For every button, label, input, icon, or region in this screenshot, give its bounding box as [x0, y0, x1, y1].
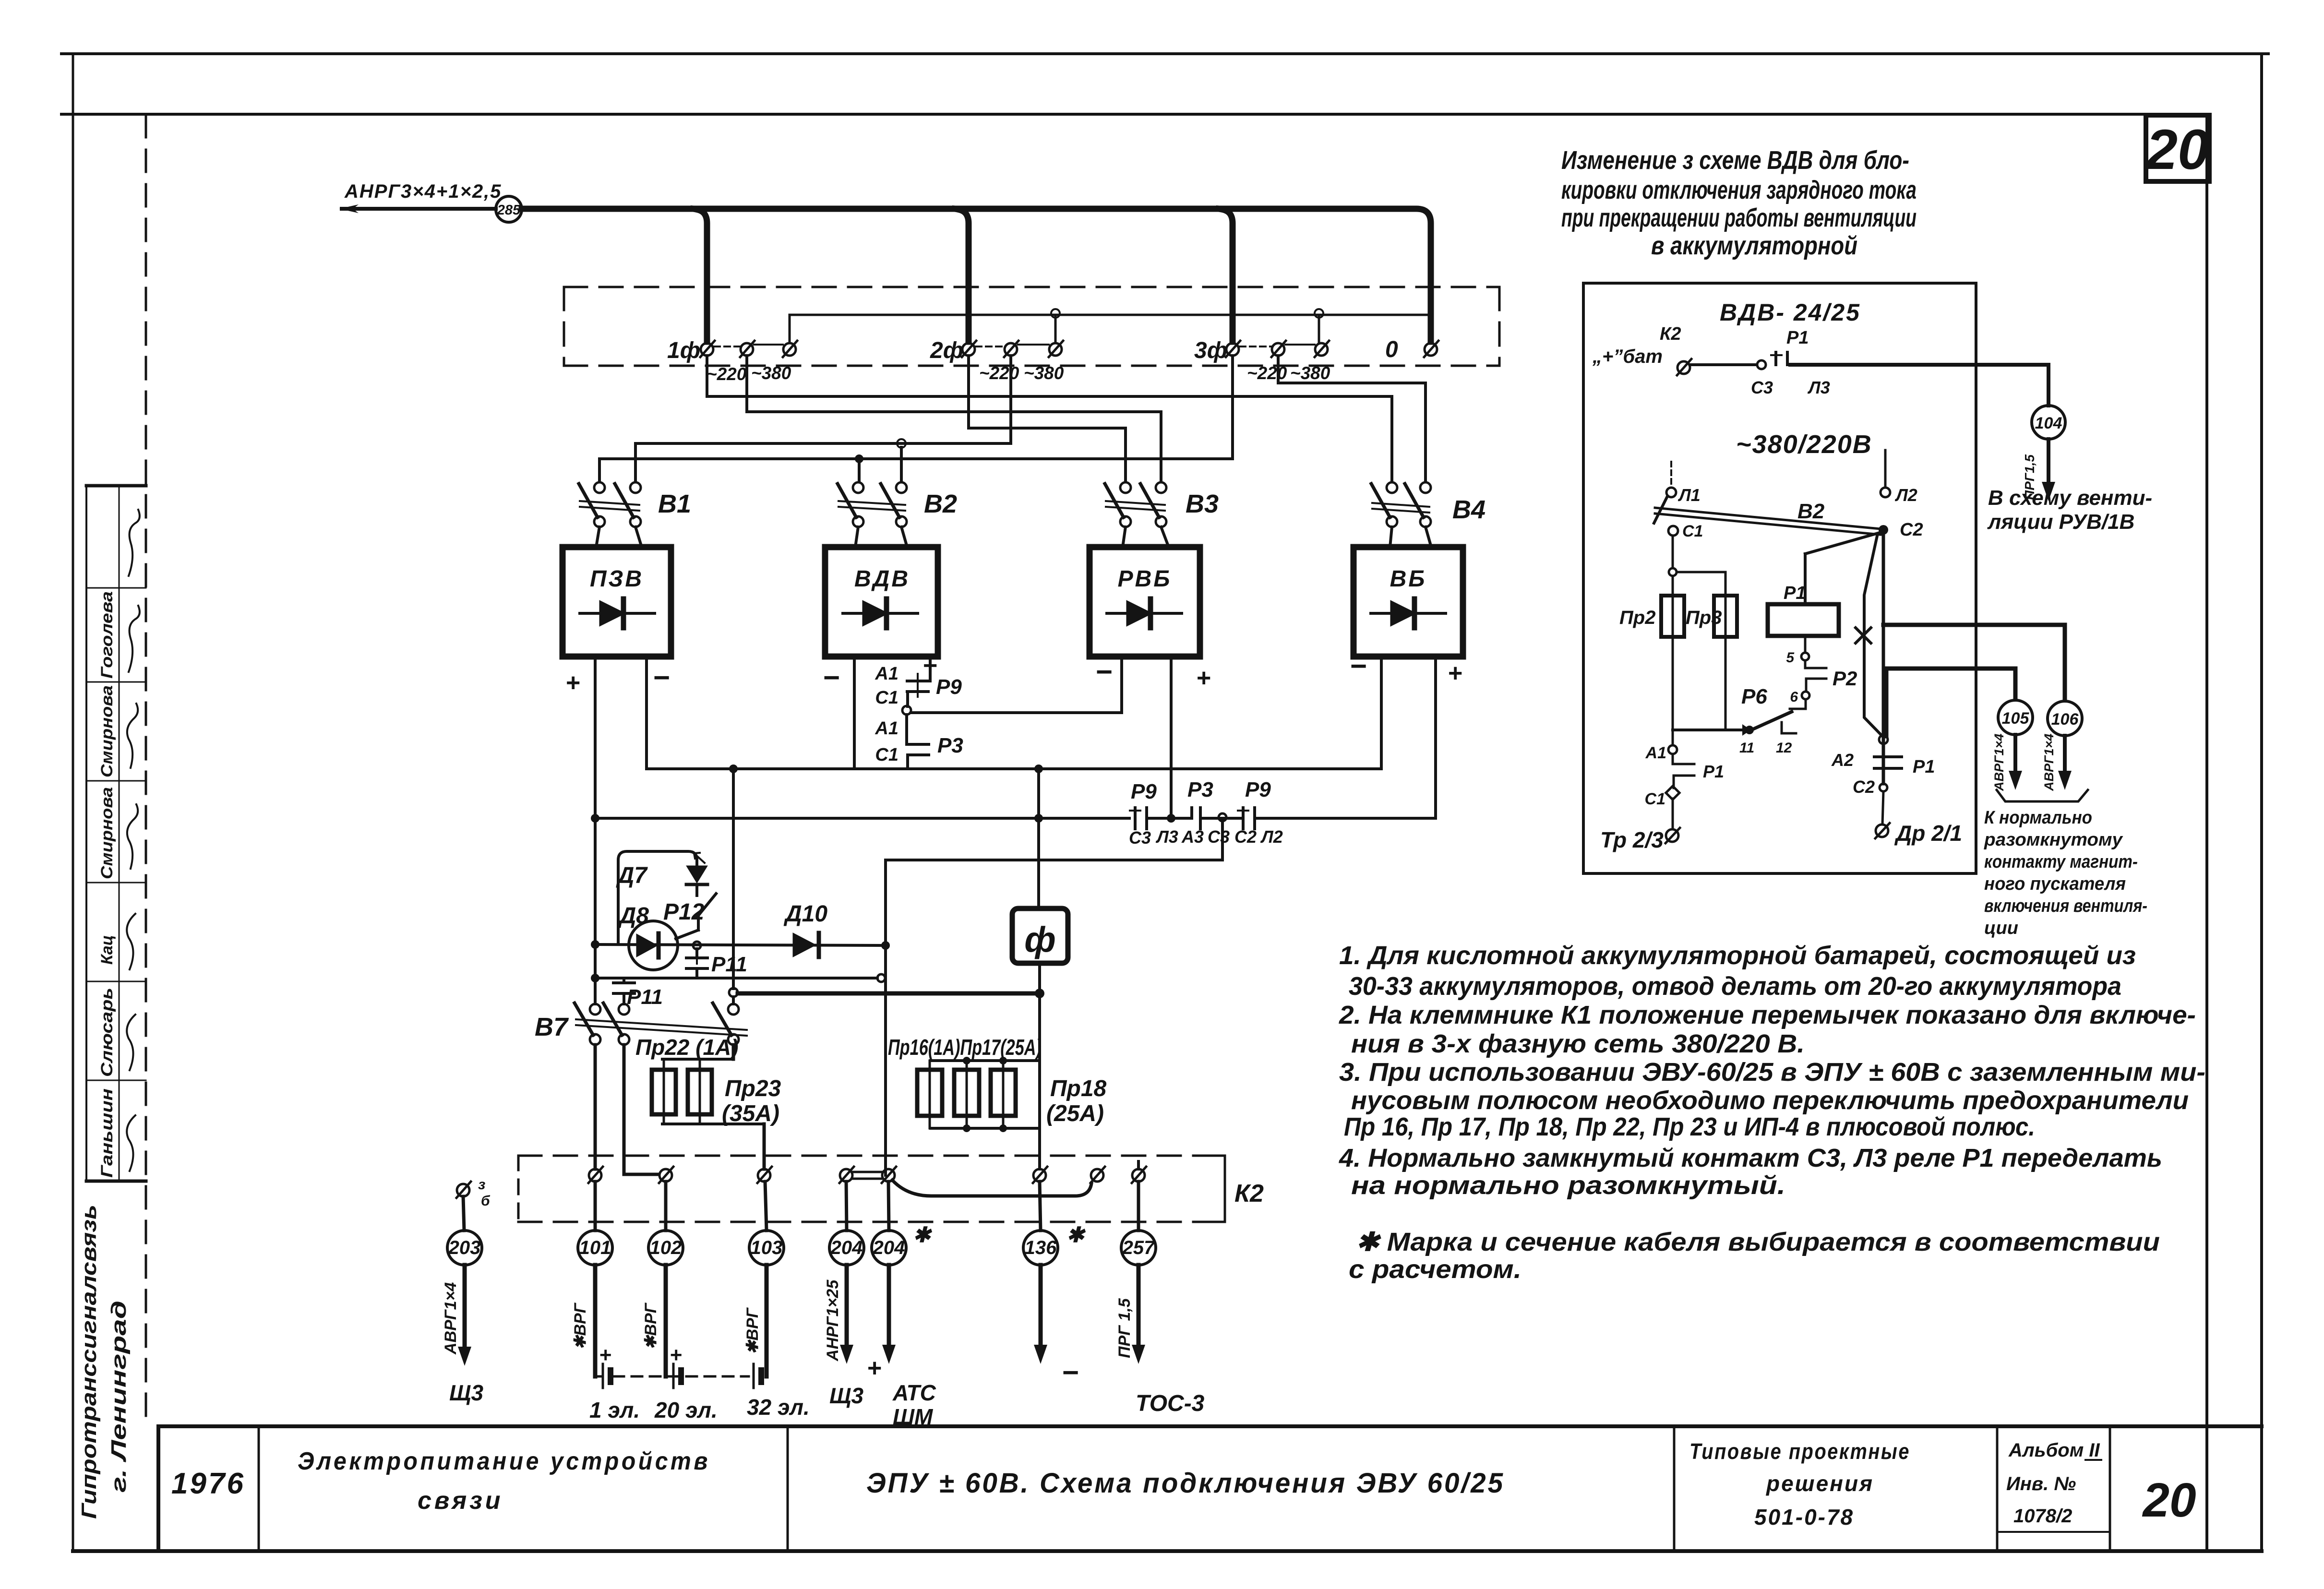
- wire 3f main to B1 left: [599, 356, 1233, 482]
- svg-text:−: −: [1095, 656, 1112, 688]
- svg-text:С1: С1: [875, 745, 898, 765]
- neutral jumper wire in K1: [790, 315, 1431, 343]
- svg-text:Гипротранссигналсвязь: Гипротранссигналсвязь: [77, 1205, 101, 1519]
- svg-text:Гоголева: Гоголева: [98, 591, 116, 679]
- svg-text:+: +: [1448, 659, 1462, 687]
- svg-text:Щ3: Щ3: [829, 1383, 863, 1408]
- svg-text:+: +: [670, 1343, 682, 1367]
- svg-text:ного пускателя: ного пускателя: [1984, 874, 2126, 894]
- svg-text:А3: А3: [1181, 827, 1204, 847]
- svg-text:ВДВ- 24/25: ВДВ- 24/25: [1720, 299, 1861, 326]
- svg-text:Д7: Д7: [616, 863, 648, 888]
- switch В7 (3-pole): [575, 1003, 747, 1045]
- svg-text:Слюсарь: Слюсарь: [98, 988, 116, 1077]
- svg-text:С2: С2: [1234, 827, 1257, 847]
- fuse group Пр23: [652, 1059, 764, 1169]
- tap labels: [707, 363, 1330, 384]
- svg-text:+: +: [599, 1343, 611, 1367]
- Р11 contact B: [613, 978, 635, 1004]
- svg-text:Д10: Д10: [783, 901, 827, 927]
- svg-text:Пр2: Пр2: [1619, 607, 1655, 628]
- svg-text:ВДВ: ВДВ: [854, 566, 910, 592]
- svg-text:Пр23: Пр23: [725, 1076, 781, 1101]
- contact Р2 chain: [1790, 653, 1826, 709]
- svg-text:Р1: Р1: [1703, 762, 1724, 781]
- svg-text:С3: С3: [1751, 378, 1773, 397]
- K1 terminals (slashed circles): [700, 341, 1438, 357]
- svg-text:1ф: 1ф: [667, 338, 700, 363]
- Д7 loop: [618, 851, 697, 944]
- lower wire to V1845: [595, 977, 877, 980]
- svg-text:АВРГ1×4: АВРГ1×4: [2042, 734, 2056, 791]
- svg-text:ЭПУ ± 60В. Схема подключени: ЭПУ ± 60В. Схема подключения ЭВУ 60/25: [866, 1468, 1505, 1499]
- signature squiggles: [127, 510, 140, 1171]
- Д8 thyristor in circle: [629, 921, 678, 970]
- svg-text:Пр22 (1А): Пр22 (1А): [635, 1035, 739, 1060]
- svg-text:1. Для кислотной аккумуляторн: 1. Для кислотной аккумуляторной батарей,…: [1339, 941, 2136, 970]
- svg-text:К2: К2: [1234, 1180, 1264, 1207]
- jumper node circles: [1051, 309, 1060, 318]
- node 285: [496, 196, 522, 222]
- svg-text:1976: 1976: [171, 1467, 245, 1500]
- svg-text:ПРГ 1,5: ПРГ 1,5: [1115, 1298, 1134, 1358]
- svg-text:✱: ✱: [913, 1223, 933, 1247]
- bracket under arrows: [1997, 790, 2088, 801]
- svg-text:−: −: [1062, 1356, 1078, 1388]
- svg-text:А1: А1: [874, 718, 898, 739]
- svg-text:б: б: [481, 1193, 491, 1209]
- svg-text:АВРГ1×4: АВРГ1×4: [1992, 734, 2006, 791]
- svg-text:АТС: АТС: [892, 1380, 936, 1405]
- svg-text:30-33 аккумуляторов, отвод дел: 30-33 аккумуляторов, отвод делать от 20-…: [1349, 972, 2121, 1001]
- sheet border bottom: [73, 1549, 2262, 1553]
- wire 2f-220 to B1 right: [635, 356, 1011, 482]
- main vertical С2 column: [1875, 535, 1890, 838]
- switch B2: [838, 482, 907, 547]
- rectifier ВДВ: [825, 547, 938, 657]
- svg-text:ф: ф: [1024, 920, 1055, 959]
- svg-text:Инв. №: Инв. №: [2006, 1473, 2076, 1494]
- cable 203 to Щ3: [463, 1265, 467, 1350]
- left column С1/Пр2/Пр3: [1661, 526, 1751, 730]
- svg-text:ТОС-3: ТОС-3: [1136, 1391, 1205, 1416]
- svg-text:разомкнутому: разомкнутому: [1984, 830, 2123, 850]
- svg-text:Л3: Л3: [1807, 378, 1830, 397]
- svg-text:136: 136: [1025, 1237, 1057, 1258]
- svg-text:Л2: Л2: [1260, 827, 1283, 847]
- battery cable 101: [593, 1265, 598, 1376]
- svg-text:контакту магнит-: контакту магнит-: [1984, 852, 2138, 872]
- battery cable 103: [765, 1265, 769, 1376]
- svg-text:С2: С2: [1853, 777, 1875, 797]
- sheet number box top-right: [2146, 115, 2209, 181]
- svg-text:2. На клеммнике К1 положение п: 2. На клеммнике К1 положение перемычек п…: [1339, 1001, 2196, 1029]
- wire from V1845 to plus bus: [886, 821, 1222, 1175]
- title block frame: [158, 1426, 2262, 1551]
- svg-text:Пр 16, Пр 17, Пр 18, Пр 22,: Пр 16, Пр 17, Пр 18, Пр 22, Пр 23 и ИП-4…: [1344, 1112, 2035, 1141]
- svg-text:Р6: Р6: [1741, 685, 1767, 708]
- svg-text:~220: ~220: [979, 363, 1019, 383]
- incoming feeder wire: [339, 196, 522, 222]
- sheet inner border top: [61, 113, 2208, 116]
- Д7 LED: [686, 853, 707, 896]
- stub B2 left: [858, 459, 861, 482]
- plus bus with contacts Р9 Р3 Р9: [594, 657, 1436, 1004]
- svg-text:6: 6: [1790, 689, 1798, 705]
- ВДВ+ contact stack Р9/Р3: [907, 657, 1122, 769]
- wire 1f main to B4 left: [707, 356, 1392, 482]
- rectifier РВБ: [1090, 547, 1200, 657]
- svg-text:203: 203: [448, 1237, 481, 1258]
- svg-text:4. Нормально замкнутый конта: 4. Нормально замкнутый контакт С3, Л3 ре…: [1339, 1144, 2162, 1172]
- signature table: [86, 486, 146, 1181]
- switch B1: [579, 482, 642, 547]
- cable 136 minus: [1039, 1265, 1043, 1348]
- node С2: [1879, 525, 1888, 535]
- svg-text:Пр16(1А)Пр17(25А): Пр16(1А)Пр17(25А): [888, 1035, 1042, 1060]
- sheet outer border left: [72, 54, 74, 1551]
- svg-text:+: +: [867, 1354, 881, 1382]
- svg-text:+: +: [565, 669, 580, 697]
- svg-text:С3: С3: [1129, 828, 1151, 848]
- svg-text:при прекращении работы вентиля: при прекращении работы вентиляции: [1561, 203, 1917, 232]
- svg-text:включения вентиля-: включения вентиля-: [1984, 896, 2147, 916]
- svg-text:Р1: Р1: [1784, 583, 1806, 603]
- svg-text:257: 257: [1122, 1237, 1155, 1258]
- wire 3f-220 to B4 right: [1278, 356, 1426, 482]
- right column X branch: [1864, 534, 1882, 736]
- svg-text:К2: К2: [1660, 324, 1681, 344]
- terminal block К2 dashed box: [518, 1156, 1225, 1222]
- battery cable 102: [664, 1265, 668, 1376]
- jumper 204-204*: [853, 1171, 882, 1173]
- svg-text:С2: С2: [1900, 520, 1923, 540]
- junction dots on minus bus: [729, 765, 738, 773]
- node on stack: [902, 706, 911, 715]
- svg-text:Л2: Л2: [1894, 485, 1917, 505]
- svg-text:Др 2/1: Др 2/1: [1894, 821, 1962, 846]
- svg-text:А1: А1: [1645, 744, 1666, 762]
- svg-text:К нормально: К нормально: [1984, 808, 2092, 828]
- svg-text:ции: ции: [1984, 918, 2018, 938]
- svg-text:~380: ~380: [1290, 363, 1330, 383]
- svg-text:С1: С1: [1682, 522, 1703, 540]
- svg-text:РВБ: РВБ: [1118, 566, 1172, 592]
- svg-text:Смирнова: Смирнова: [98, 685, 116, 777]
- svg-text:Л3: Л3: [1155, 827, 1178, 847]
- svg-text:з: з: [478, 1177, 485, 1193]
- main feeder bus: [522, 209, 1431, 342]
- svg-text:АНРГ3×4+1×2,5: АНРГ3×4+1×2,5: [344, 181, 502, 202]
- wire through Д8 and Д10: [595, 944, 886, 945]
- svg-text:105: 105: [2002, 709, 2030, 728]
- node circle on wire at B2 right: [897, 439, 906, 448]
- svg-text:ния в 3-х фазную сеть 380: ния в 3-х фазную сеть 380/220 В.: [1351, 1029, 1805, 1058]
- wires В7 to К2: [595, 1045, 733, 1174]
- svg-text:в аккумуляторной: в аккумуляторной: [1651, 231, 1857, 260]
- svg-text:нусовым полюсом необходимо: нусовым полюсом необходимо переключить п…: [1351, 1086, 2189, 1115]
- stub B2 right: [900, 447, 903, 482]
- K1 jumper links: [714, 345, 1315, 346]
- svg-text:✱ВРГ: ✱ВРГ: [743, 1307, 762, 1354]
- svg-text:Р11: Р11: [711, 953, 747, 976]
- minus bus ПЗВ−/ВДВ−/ВБ−: [647, 657, 1381, 769]
- svg-text:~380: ~380: [751, 363, 791, 383]
- signature table names (rotated): [98, 591, 116, 1178]
- numbered circles row: [447, 1231, 1156, 1265]
- svg-text:Р11: Р11: [627, 985, 663, 1009]
- svg-text:204: 204: [873, 1237, 905, 1258]
- wires to circles 105/106: [1883, 625, 2065, 736]
- svg-text:~220: ~220: [707, 364, 747, 384]
- svg-text:АВРГ1×4: АВРГ1×4: [442, 1282, 460, 1355]
- svg-text:В7: В7: [535, 1013, 569, 1041]
- relay coil Р1: [1768, 533, 1880, 653]
- sheet outer border top: [61, 52, 2268, 55]
- cable 257 to ТОС-3: [1137, 1265, 1141, 1348]
- svg-text:связи: связи: [418, 1487, 503, 1515]
- svg-text:Р3: Р3: [937, 734, 963, 757]
- svg-text:(35А): (35А): [722, 1101, 779, 1126]
- svg-text:✱ВРГ: ✱ВРГ: [642, 1302, 660, 1350]
- svg-text:✱: ✱: [1066, 1223, 1086, 1247]
- svg-text:Д8: Д8: [618, 903, 649, 929]
- drawing area left dashed border: [145, 115, 147, 1426]
- svg-text:С1: С1: [1645, 790, 1665, 808]
- svg-text:Р1: Р1: [1786, 328, 1809, 348]
- svg-text:В схему венти-: В схему венти-: [1988, 486, 2152, 510]
- svg-text:(25А): (25А): [1046, 1101, 1104, 1126]
- svg-text:5: 5: [1786, 650, 1795, 666]
- svg-text:102: 102: [650, 1237, 682, 1258]
- svg-text:−: −: [653, 661, 670, 693]
- svg-text:Р9: Р9: [1245, 778, 1271, 801]
- svg-text:с расчетом.: с расчетом.: [1349, 1255, 1521, 1284]
- svg-text:3. При использовании ЭВУ-60/2: 3. При использовании ЭВУ-60/25 в ЭПУ ± 6…: [1339, 1058, 2205, 1087]
- feeder drop 3f: [1219, 209, 1233, 342]
- svg-text:+: +: [1196, 664, 1210, 692]
- svg-text:Р2: Р2: [1833, 667, 1857, 690]
- svg-text:В4: В4: [1452, 495, 1485, 524]
- sheet outer border right: [2260, 54, 2263, 1551]
- svg-text:Р9: Р9: [1131, 780, 1157, 803]
- svg-text:204: 204: [830, 1237, 863, 1258]
- svg-text:С3: С3: [1208, 827, 1230, 847]
- svg-text:Кац: Кац: [98, 935, 116, 965]
- svg-text:✱ Марка и сечение кабеля в: ✱ Марка и сечение кабеля выбирается в со…: [1356, 1228, 2160, 1256]
- svg-text:1 эл.: 1 эл.: [589, 1398, 640, 1422]
- svg-text:В2: В2: [924, 490, 957, 518]
- fuse group Пр18: [917, 993, 1040, 1169]
- wire 1f-220 to B3 right: [747, 356, 1161, 482]
- blade Р6: [1748, 712, 1792, 731]
- svg-text:1078/2: 1078/2: [2013, 1505, 2072, 1527]
- К2 terminals: [588, 1167, 1146, 1183]
- svg-text:−: −: [1350, 650, 1366, 682]
- svg-text:В2: В2: [1797, 500, 1825, 523]
- svg-text:В1: В1: [658, 490, 691, 518]
- svg-text:Электропитание устройств: Электропитание устройств: [298, 1447, 710, 1475]
- svg-text:32 эл.: 32 эл.: [747, 1395, 810, 1420]
- vertical from minus bus to В7 pole3: [732, 769, 735, 1004]
- svg-text:Щ3: Щ3: [449, 1380, 483, 1405]
- switch B3: [1105, 482, 1169, 547]
- cable 204* to АТС ШМ: [887, 1265, 891, 1348]
- svg-text:ляции РУВ/1В: ляции РУВ/1В: [1987, 510, 2134, 534]
- svg-text:г. Ленинград: г. Ленинград: [107, 1301, 131, 1493]
- annotation к нормально...: [1984, 808, 2147, 938]
- svg-text:Смирнова: Смирнова: [98, 787, 116, 879]
- rectifier ПЗВ: [563, 547, 671, 657]
- stub above terminal 257: [1137, 1161, 1140, 1169]
- svg-text:С1: С1: [875, 688, 898, 708]
- svg-text:✱ВРГ: ✱ВРГ: [571, 1302, 589, 1350]
- svg-text:101: 101: [579, 1237, 611, 1258]
- left column А1 Р1 С1 Тр2/3: [1665, 730, 1694, 843]
- phase routing wires K1 to switches: [599, 356, 1426, 482]
- svg-text:2ф: 2ф: [930, 338, 963, 363]
- svg-text:~380: ~380: [1024, 363, 1064, 383]
- junction dot B2 left: [855, 454, 863, 463]
- svg-text:~380/220В: ~380/220В: [1736, 430, 1872, 459]
- rectifier ВБ: [1354, 547, 1463, 657]
- contact Р1 right: [1874, 757, 1902, 768]
- switch B4: [1371, 482, 1431, 547]
- svg-text:106: 106: [2051, 710, 2079, 729]
- cable 204 to Щ3: [845, 1265, 849, 1348]
- terminal block K1 dashed box: [564, 287, 1499, 366]
- svg-text:20: 20: [2145, 118, 2209, 181]
- svg-text:Р3: Р3: [1187, 778, 1213, 801]
- svg-text:20 эл.: 20 эл.: [654, 1398, 718, 1422]
- terminal з with wire to 203: [456, 1182, 471, 1198]
- svg-text:~220: ~220: [1247, 363, 1287, 383]
- switch В2 in sub-schematic: [1654, 450, 1890, 535]
- svg-text:А1: А1: [874, 664, 898, 684]
- feeder drop 1f: [694, 209, 707, 342]
- svg-text:решения: решения: [1765, 1471, 1874, 1496]
- svg-text:ВБ: ВБ: [1390, 566, 1427, 592]
- Р11 contact A: [686, 949, 707, 978]
- svg-text:А2: А2: [1831, 750, 1854, 770]
- zigzag wire 204* to spare terminal: [892, 1180, 1091, 1196]
- svg-text:Пр3: Пр3: [1686, 607, 1722, 628]
- svg-text:Л1: Л1: [1677, 485, 1701, 505]
- svg-text:ШМ: ШМ: [893, 1404, 934, 1429]
- svg-text:Альбом II: Альбом II: [2008, 1440, 2100, 1461]
- svg-text:12: 12: [1776, 740, 1792, 756]
- svg-text:501-0-78: 501-0-78: [1754, 1505, 1854, 1529]
- svg-text:АНРГ1×25: АНРГ1×25: [824, 1279, 842, 1362]
- svg-text:−: −: [823, 661, 839, 693]
- svg-text:Р12: Р12: [663, 899, 705, 925]
- filter Ф box: [1012, 769, 1068, 993]
- svg-text:Ганьшин: Ганьшин: [98, 1088, 116, 1178]
- svg-text:103: 103: [751, 1237, 783, 1258]
- sheet inner border right: [2205, 114, 2208, 1551]
- Р12 contact blade: [676, 894, 716, 939]
- heavy bus to Ф and fuses: [738, 992, 1042, 996]
- svg-text:на нормально разомкнутый.: на нормально разомкнутый.: [1351, 1171, 1785, 1200]
- svg-text:В3: В3: [1186, 490, 1219, 518]
- svg-text:3ф: 3ф: [1194, 338, 1227, 363]
- Д10 diode: [793, 933, 819, 957]
- battery dashed link: [613, 1375, 749, 1378]
- svg-text:11: 11: [1739, 740, 1754, 756]
- svg-text:Р1: Р1: [1913, 757, 1935, 777]
- svg-text:Р9: Р9: [936, 675, 962, 699]
- feeder drop 2f: [955, 209, 969, 342]
- svg-text:104: 104: [2035, 414, 2062, 432]
- svg-text:20: 20: [2142, 1473, 2196, 1527]
- svg-text:„+”бат: „+”бат: [1592, 346, 1663, 367]
- svg-text:0: 0: [1385, 337, 1398, 362]
- svg-text:Типовые проектные: Типовые проектные: [1689, 1439, 1910, 1464]
- svg-text:Пр18: Пр18: [1050, 1076, 1107, 1101]
- svg-text:Тр 2/3: Тр 2/3: [1600, 827, 1664, 852]
- svg-text:Изменение з схеме ВДВ для бло-: Изменение з схеме ВДВ для бло-: [1561, 146, 1909, 175]
- stubs terminal to circle: [595, 1182, 1138, 1231]
- svg-text:285: 285: [497, 203, 521, 218]
- wire 2f main to B3 left: [969, 356, 1126, 482]
- svg-text:ПЗВ: ПЗВ: [590, 566, 644, 592]
- circle 104 with cable: [2032, 406, 2065, 439]
- sub-schematic box: [1583, 283, 1976, 873]
- svg-text:кировки отключения зарядного т: кировки отключения зарядного тока: [1561, 176, 1917, 204]
